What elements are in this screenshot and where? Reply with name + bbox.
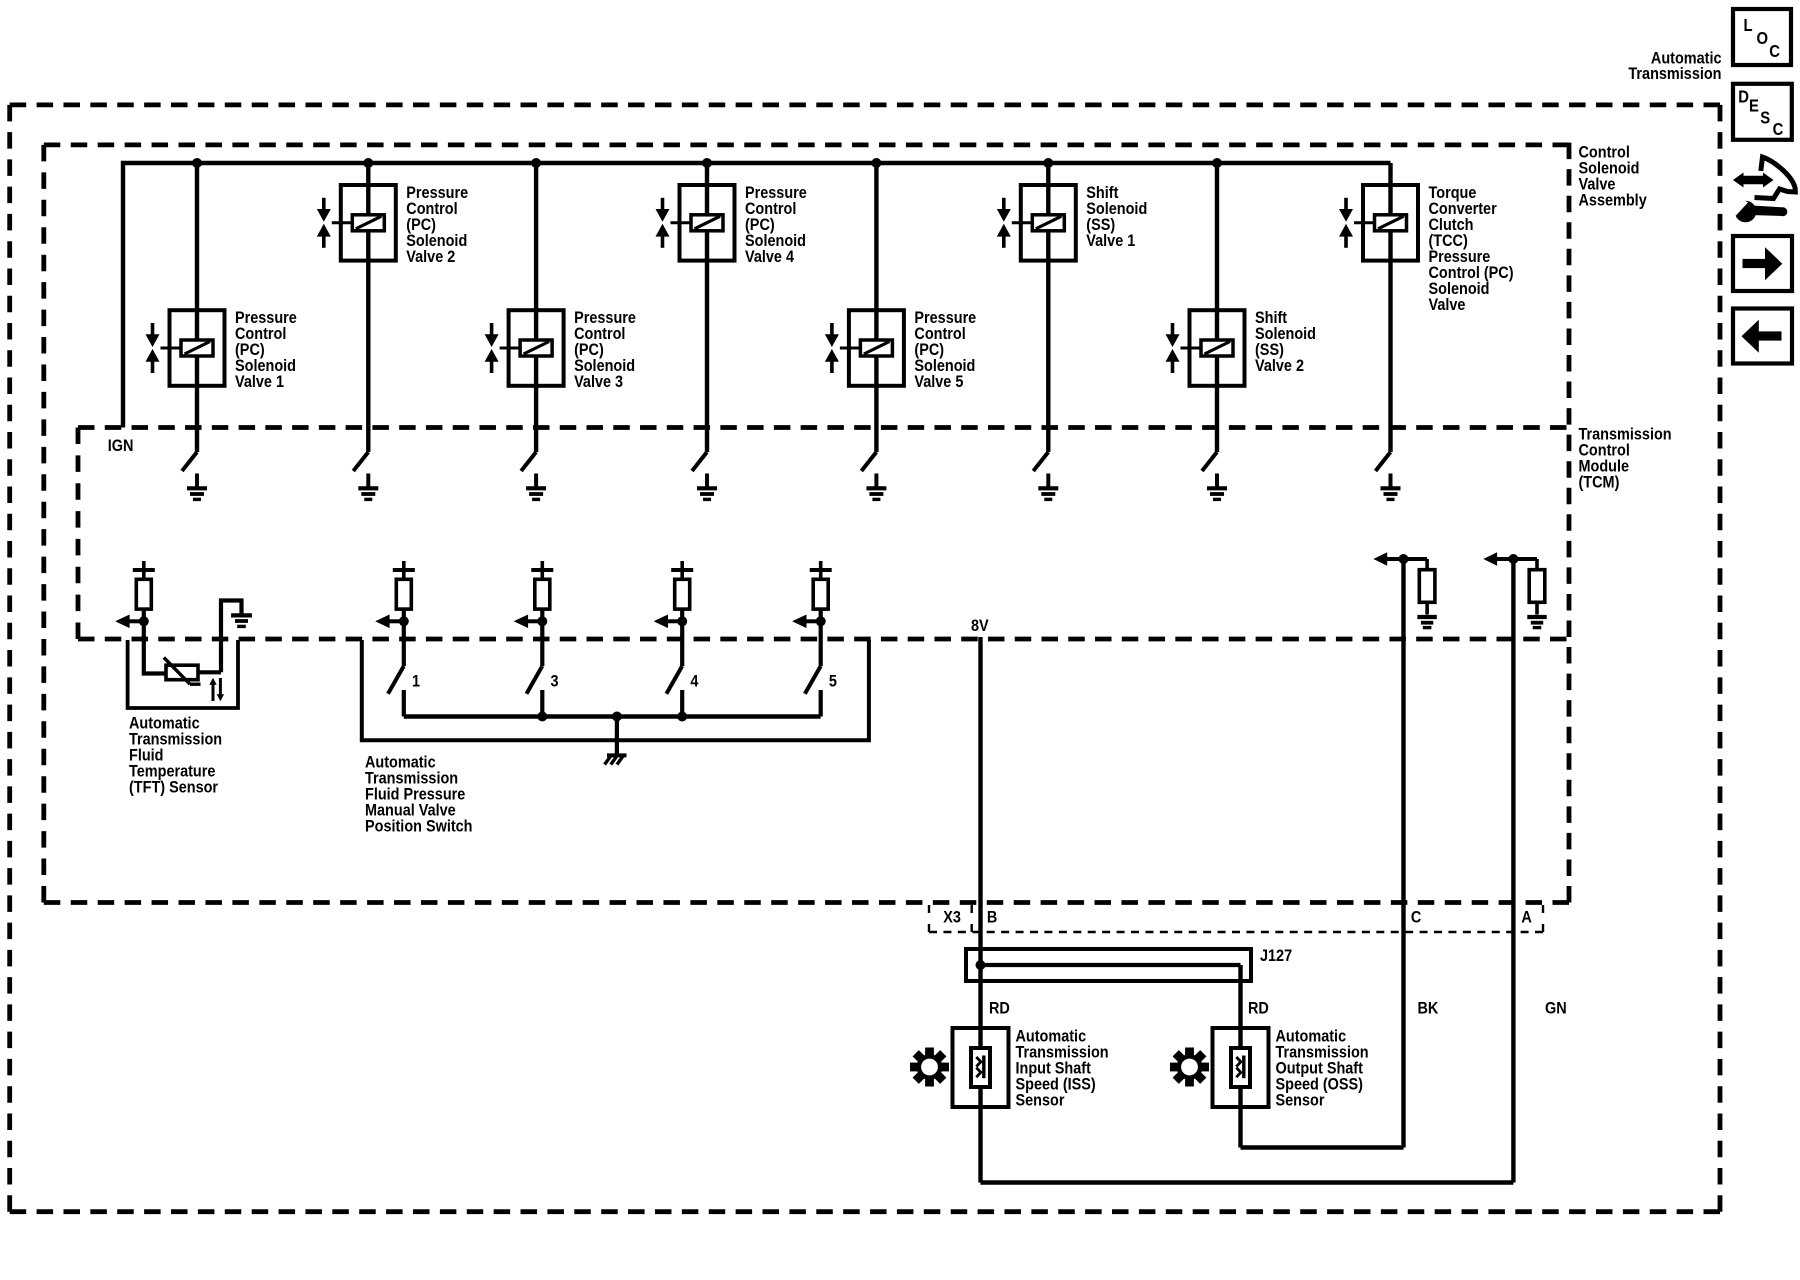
junction dot on IGN bus (col 4) bbox=[702, 158, 712, 168]
solenoid TCC coil box bbox=[1354, 185, 1418, 261]
solenoid PC1 coil box bbox=[161, 310, 225, 386]
svg-text:Valve: Valve bbox=[1429, 296, 1466, 314]
MVPS housing bracket bbox=[362, 640, 869, 740]
svg-text:C: C bbox=[1773, 120, 1784, 139]
solenoid SS1 valve symbol bbox=[997, 198, 1011, 248]
junction dot (MVPS ground tap) bbox=[612, 712, 622, 722]
driver switch (col 1) bbox=[182, 452, 197, 471]
solenoid SS2 valve symbol bbox=[1166, 323, 1180, 373]
solenoid PC2 valve symbol bbox=[317, 198, 331, 248]
svg-text:Transmission: Transmission bbox=[1628, 65, 1721, 83]
MVPS switch 4 bbox=[666, 666, 682, 694]
ground (col 2) bbox=[358, 474, 378, 500]
junction dot on IGN bus (col 2) bbox=[363, 158, 373, 168]
svg-text:(TCM): (TCM) bbox=[1579, 473, 1620, 491]
wire: supply drop to solenoid PC2 bbox=[366, 163, 370, 452]
label: Automatic Transmission Input Shaft Speed (ISS) Sensor bbox=[1016, 1027, 1109, 1109]
wire: MVPS switch 3 feed bbox=[540, 621, 544, 666]
solenoid PC4 valve symbol bbox=[656, 198, 670, 248]
TFT thermistor bbox=[164, 658, 201, 685]
driver switch (col 6) bbox=[1033, 452, 1048, 471]
back arrow icon bbox=[1733, 309, 1792, 364]
svg-text:L: L bbox=[1744, 16, 1753, 35]
driver switch (col 2) bbox=[353, 452, 368, 471]
ground (col 7) bbox=[1207, 474, 1227, 500]
driver switch (col 8) bbox=[1376, 452, 1391, 471]
solenoid SS1 coil box bbox=[1012, 185, 1076, 261]
TFT sensor housing bracket bbox=[128, 640, 238, 708]
junction dot on IGN bus (col 1) bbox=[192, 158, 202, 168]
signal tap arrow (OSS signal BK) bbox=[1373, 552, 1427, 565]
dashed box: Control Solenoid Valve Assembly bbox=[44, 143, 1569, 903]
TFT variability arrows bbox=[209, 678, 224, 702]
svg-text:Valve 4: Valve 4 bbox=[745, 248, 794, 266]
svg-text:Valve 2: Valve 2 bbox=[1255, 357, 1304, 375]
wire: MVPS common bus bbox=[404, 714, 821, 719]
svg-text:Valve 1: Valve 1 bbox=[235, 373, 284, 391]
wire: ISS signal (GN, pin A) bbox=[1511, 559, 1515, 1183]
label: Shift Solenoid (SS) Valve 2 bbox=[1255, 309, 1316, 375]
svg-text:1: 1 bbox=[412, 672, 420, 690]
ground (ISS signal GN) bbox=[1527, 617, 1546, 628]
solenoid PC5 coil box bbox=[840, 310, 904, 386]
wire: MVPS switch 3 to common bus bbox=[540, 690, 544, 717]
wire: OSS signal (BK, pin C) bbox=[1401, 559, 1405, 1148]
svg-text:A: A bbox=[1521, 908, 1531, 926]
signal tap arrow (MVPS sw4) bbox=[654, 615, 683, 629]
wire: TFT sensor return to ground bbox=[221, 601, 242, 673]
svg-text:Valve 1: Valve 1 bbox=[1086, 232, 1135, 250]
pull-up resistor (MVPS sw5) bbox=[810, 561, 832, 621]
svg-text:GN: GN bbox=[1545, 999, 1567, 1017]
driver switch (col 3) bbox=[521, 452, 536, 471]
signal tap arrow (MVPS sw5) bbox=[792, 615, 821, 629]
wire: TFT sensor feed bbox=[144, 621, 166, 673]
driver switch (col 7) bbox=[1202, 452, 1217, 471]
label: Pressure Control (PC) Solenoid Valve 3 bbox=[574, 309, 636, 391]
wire: IGN supply bus bbox=[123, 163, 1391, 428]
solenoid PC2 coil box bbox=[332, 185, 396, 261]
solenoid PC3 coil box bbox=[500, 310, 564, 386]
junction dot (ISS signal GN) bbox=[1508, 554, 1518, 564]
signal tap arrow (TFT signal) bbox=[115, 615, 144, 629]
wire: MVPS switch 4 to common bus bbox=[680, 690, 684, 717]
MVPS switch 5 bbox=[805, 666, 821, 694]
label: Automatic Transmission Fluid Pressure Manual Valve Position Switch bbox=[365, 753, 473, 835]
svg-text:S: S bbox=[1760, 108, 1770, 127]
svg-text:RD: RD bbox=[1248, 999, 1269, 1017]
label: Automatic Transmission Fluid Temperature (TFT) Sensor bbox=[129, 714, 222, 796]
svg-text:5: 5 bbox=[829, 672, 837, 690]
ground (OSS signal BK) bbox=[1417, 617, 1436, 628]
label: Pressure Control (PC) Solenoid Valve 4 bbox=[745, 184, 807, 266]
svg-text:Valve 5: Valve 5 bbox=[914, 373, 963, 391]
svg-text:O: O bbox=[1757, 29, 1769, 48]
svg-text:BK: BK bbox=[1418, 999, 1439, 1017]
label: Pressure Control (PC) Solenoid Valve 1 bbox=[235, 309, 297, 391]
ground (col 5) bbox=[866, 474, 886, 500]
label: Pressure Control (PC) Solenoid Valve 5 bbox=[914, 309, 976, 391]
OSS sensor box bbox=[1213, 1028, 1269, 1107]
junction dot (OSS signal BK) bbox=[1399, 554, 1409, 564]
svg-text:3: 3 bbox=[551, 672, 559, 690]
junction dot (MVPS sw4) bbox=[677, 616, 687, 626]
wire: supply drop to solenoid TCC bbox=[1388, 163, 1392, 452]
wire: supply drop to solenoid PC5 bbox=[874, 163, 878, 452]
wire: 8V reference (pin B) bbox=[978, 637, 982, 1183]
svg-text:Valve 3: Valve 3 bbox=[574, 373, 623, 391]
label: Torque Converter Clutch (TCC) Pressure Control (PC) Solenoid Valve bbox=[1429, 184, 1514, 314]
junction dot (J127 splice) bbox=[976, 960, 986, 970]
label: Pressure Control (PC) Solenoid Valve 2 bbox=[406, 184, 468, 266]
wire: MVPS switch 5 feed bbox=[819, 621, 823, 666]
svg-text:IGN: IGN bbox=[108, 437, 134, 455]
ground (col 1) bbox=[187, 474, 207, 500]
pull-up resistor (TFT signal) bbox=[133, 561, 155, 621]
symptom-to-repair icon (double arrow, outline arrow, wrench) bbox=[1729, 157, 1796, 222]
ground (col 4) bbox=[697, 474, 717, 500]
junction dot (MVPS sw5) bbox=[816, 616, 826, 626]
svg-text:4: 4 bbox=[690, 672, 698, 690]
junction dot (MVPS sw4) bbox=[677, 712, 687, 722]
driver switch (col 4) bbox=[692, 452, 707, 471]
solenoid PC5 valve symbol bbox=[825, 323, 839, 373]
junction dot (MVPS sw3) bbox=[537, 616, 547, 626]
wire: MVPS switch 1 to common bus bbox=[402, 690, 406, 717]
splice pack J127 bbox=[966, 949, 1251, 981]
signal tap arrow (MVPS sw1) bbox=[375, 615, 404, 629]
svg-text:J127: J127 bbox=[1260, 947, 1292, 965]
svg-text:C: C bbox=[1411, 908, 1421, 926]
junction dot on IGN bus (col 5) bbox=[871, 158, 881, 168]
wire: supply drop to solenoid PC4 bbox=[705, 163, 709, 452]
MVPS switch 1 bbox=[388, 666, 404, 694]
svg-text:E: E bbox=[1749, 96, 1759, 115]
driver switch (col 5) bbox=[861, 452, 876, 471]
svg-text:(TFT) Sensor: (TFT) Sensor bbox=[129, 778, 218, 796]
ground (col 6) bbox=[1038, 474, 1058, 500]
ISS sensor box bbox=[953, 1028, 1009, 1107]
wire: MVPS switch 5 to common bus bbox=[819, 690, 823, 717]
dashed box: Transmission Control Module (TCM) bbox=[78, 428, 1567, 640]
svg-text:Position Switch: Position Switch bbox=[365, 817, 473, 835]
pull-up resistor (MVPS sw4) bbox=[671, 561, 693, 621]
wire: ISS return loop to pin A bbox=[981, 1180, 1514, 1184]
pull-down resistor (ISS signal GN) bbox=[1529, 559, 1545, 615]
wire: MVPS switch 1 feed bbox=[402, 621, 406, 666]
svg-text:Valve 2: Valve 2 bbox=[406, 248, 455, 266]
svg-text:C: C bbox=[1769, 42, 1780, 61]
wire: MVPS switch 4 feed bbox=[680, 621, 684, 666]
ground (TFT return) bbox=[231, 615, 252, 626]
junction dot on IGN bus (col 3) bbox=[531, 158, 541, 168]
svg-text:RD: RD bbox=[989, 999, 1010, 1017]
svg-text:Assembly: Assembly bbox=[1579, 191, 1647, 209]
wire: supply drop to solenoid PC3 bbox=[534, 163, 538, 452]
junction dot (MVPS sw3) bbox=[537, 712, 547, 722]
svg-text:X3: X3 bbox=[943, 908, 961, 926]
gear icon (ISS) bbox=[910, 1048, 949, 1087]
connector X3 band (dashed) bbox=[929, 905, 1543, 932]
solenoid PC3 valve symbol bbox=[485, 323, 499, 373]
solenoid PC4 coil box bbox=[671, 185, 735, 261]
signal tap arrow (MVPS sw3) bbox=[514, 615, 543, 629]
pull-up resistor (MVPS sw3) bbox=[531, 561, 553, 621]
junction dot on IGN bus (col 7) bbox=[1212, 158, 1222, 168]
chassis ground (MVPS) bbox=[605, 755, 627, 764]
svg-text:D: D bbox=[1738, 87, 1749, 106]
wire: supply drop to solenoid SS1 bbox=[1046, 163, 1050, 452]
ground (col 8) bbox=[1381, 474, 1401, 500]
pull-up resistor (MVPS sw1) bbox=[393, 561, 415, 621]
wire: thermistor to return bbox=[198, 670, 221, 674]
junction dot on IGN bus (col 6) bbox=[1043, 158, 1053, 168]
wire: supply drop to solenoid SS2 bbox=[1215, 163, 1219, 452]
solenoid SS2 coil box bbox=[1181, 310, 1245, 386]
svg-text:B: B bbox=[987, 908, 997, 926]
ground (col 3) bbox=[526, 474, 546, 500]
pull-down resistor (OSS signal BK) bbox=[1419, 559, 1435, 615]
wire: supply drop to solenoid PC1 bbox=[195, 163, 199, 452]
gear icon (OSS) bbox=[1170, 1048, 1209, 1087]
junction dot (TFT signal) bbox=[139, 616, 149, 626]
LOC icon bbox=[1733, 9, 1791, 65]
wire: OSS return loop to pin C bbox=[1241, 1145, 1404, 1149]
svg-text:Sensor: Sensor bbox=[1016, 1091, 1065, 1109]
svg-text:Sensor: Sensor bbox=[1276, 1091, 1325, 1109]
forward arrow icon bbox=[1733, 236, 1792, 291]
label: Shift Solenoid (SS) Valve 1 bbox=[1086, 184, 1147, 250]
MVPS switch 3 bbox=[527, 666, 543, 694]
junction dot (MVPS sw1) bbox=[399, 616, 409, 626]
DESC icon bbox=[1733, 84, 1792, 140]
solenoid TCC valve symbol bbox=[1339, 198, 1353, 248]
wire: MVPS bus to chassis ground bbox=[615, 717, 619, 755]
signal tap arrow (ISS signal GN) bbox=[1483, 552, 1537, 565]
wire: OSS feed from J127 bbox=[1238, 965, 1242, 1148]
svg-text:8V: 8V bbox=[971, 617, 989, 635]
solenoid PC1 valve symbol bbox=[146, 323, 160, 373]
label: Automatic Transmission Output Shaft Speed (OSS) Sensor bbox=[1276, 1027, 1369, 1109]
